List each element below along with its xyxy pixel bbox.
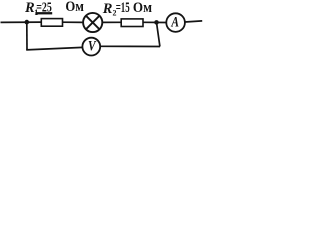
wire: ammeter to right edge (185, 21, 202, 22)
resistor R1 (41, 19, 62, 27)
node: junction right (dot) (154, 20, 159, 25)
wire: R2 to ammeter (143, 21, 166, 23)
svg-text:Ом: Ом (65, 0, 84, 15)
svg-text:R: R (102, 1, 113, 17)
svg-text:V: V (88, 39, 97, 55)
wire: voltmeter to bottom right corner (100, 45, 160, 47)
svg-text:=15: =15 (116, 0, 130, 16)
wire: right vertical (junction to bottom corner) (157, 22, 160, 46)
ammeter PA1 (166, 13, 185, 32)
wire: R1 to lamp (63, 21, 84, 23)
wire: bottom left to voltmeter (26, 47, 82, 50)
wire: lamp to R2 (102, 21, 121, 23)
underline under =25 (35, 12, 52, 14)
lamp HL1 (circle with X) (83, 13, 102, 32)
node: junction left (dot) (25, 20, 30, 25)
svg-text:Ом: Ом (133, 0, 152, 16)
svg-text:A: A (171, 14, 180, 30)
wire: left vertical drop (26, 22, 28, 50)
resistor R2 (121, 19, 143, 27)
voltmeter PV1 (82, 38, 100, 56)
wire: left feed (1, 21, 42, 23)
